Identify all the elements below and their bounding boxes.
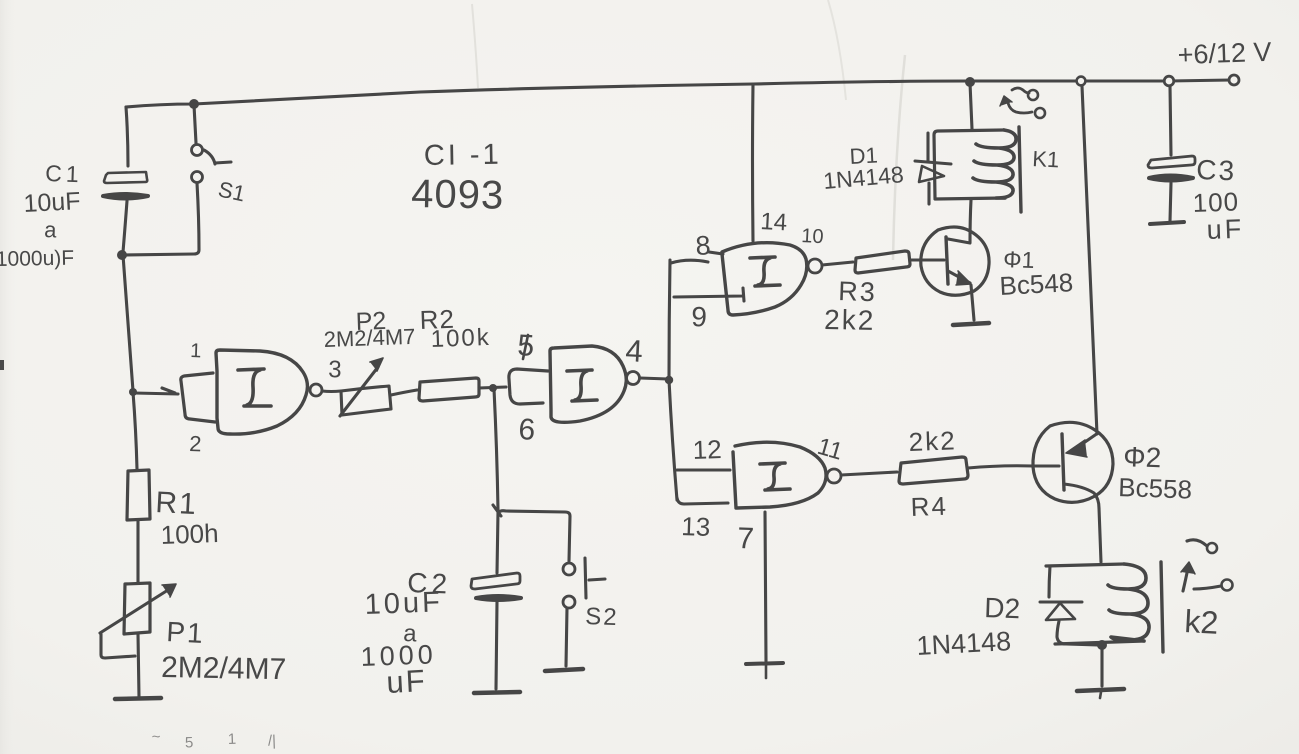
wire: P1 to ground	[138, 634, 139, 697]
svg-text:5: 5	[517, 329, 535, 363]
NAND gate U1A output bubble pin3	[310, 384, 322, 396]
C3 end bar	[1150, 222, 1184, 224]
capacitor C1 top plate	[104, 172, 147, 183]
svg-text:6: 6	[518, 413, 536, 447]
junction node pin4	[665, 376, 673, 384]
transistor Q2 collector	[1064, 484, 1099, 508]
relay K2 armature bar	[1161, 562, 1163, 652]
wire: node to pin9	[674, 288, 744, 301]
svg-text:K1: K1	[1032, 146, 1060, 172]
svg-text:4: 4	[625, 333, 644, 369]
diode D2	[1049, 566, 1050, 597]
NAND gate U1D input edge	[733, 452, 736, 508]
NAND gate U1B hysteresis mark	[567, 370, 597, 401]
junction node C1/S1	[117, 250, 127, 260]
svg-text:1N4148: 1N4148	[916, 626, 1012, 661]
junction node pin5/6 C2 branch	[489, 384, 497, 392]
relay K2 coil box	[1046, 564, 1124, 566]
wire: down to C2	[497, 512, 498, 573]
svg-text:D2: D2	[984, 592, 1021, 624]
switch S1 contact top	[192, 145, 203, 156]
wire: S1 down and left to junction	[125, 183, 199, 255]
junction node gate1 input	[129, 388, 137, 396]
wire: R4 to Q2 base	[968, 466, 1059, 468]
svg-text:13: 13	[681, 511, 711, 542]
capacitor C2 top plate	[471, 573, 520, 589]
wire: P2 to R2	[391, 390, 417, 395]
paper crease 3	[828, 0, 846, 100]
NAND gate U1D hysteresis mark	[760, 463, 790, 490]
NAND gate U1A hysteresis mark	[238, 369, 271, 406]
switch S2 contact bottom	[563, 596, 575, 608]
potentiometer P2 arrow	[340, 367, 378, 416]
diode D1	[928, 133, 929, 204]
svg-text:2M2/4M7: 2M2/4M7	[161, 651, 287, 686]
NAND gate U1A body	[216, 350, 307, 434]
wire: rail to relay K1	[970, 83, 972, 129]
capacitor C2 bottom plate	[476, 596, 521, 600]
capacitor C3 junction circle	[1164, 76, 1174, 86]
wire: long vertical from rail to Q2	[1082, 86, 1097, 434]
svg-text:5: 5	[185, 734, 194, 751]
wire: top power rail	[126, 80, 1231, 107]
relay K1 coil box	[934, 130, 1004, 198]
svg-text:~: ~	[151, 728, 161, 745]
potentiometer P1 body	[124, 583, 150, 634]
wire: K2 to ground	[1100, 646, 1103, 686]
svg-text:1: 1	[190, 340, 202, 362]
svg-text:8: 8	[695, 230, 712, 261]
transistor Q2 body circle	[1033, 422, 1113, 502]
capacitor C1 bottom plate	[103, 194, 148, 199]
wire: node down to R1	[133, 392, 137, 469]
wire: node corner to pin13	[677, 498, 728, 504]
relay K2 contact wire and arrow	[1183, 568, 1221, 591]
NAND gate U1A input stub box	[181, 373, 215, 422]
svg-text:2k2: 2k2	[824, 304, 876, 336]
transistor Q1 base bar	[946, 237, 948, 284]
wire: C1 bottom down to junction	[123, 201, 127, 252]
NAND gate U1D output bubble pin11	[827, 469, 841, 483]
svg-text:9: 9	[691, 301, 708, 333]
wire: Q2 collector down to K2	[1099, 508, 1101, 562]
NAND gate U1C output bubble pin10	[808, 259, 822, 273]
svg-text:S2: S2	[585, 603, 619, 631]
svg-text:4093: 4093	[411, 172, 505, 218]
terminal: rail end open circle	[1229, 75, 1239, 85]
transistor Q2 emitter with arrow	[1072, 433, 1098, 451]
wire: node to pin12	[677, 468, 730, 471]
potentiometer P1 wiper strap	[101, 634, 135, 658]
wire: pin10 to R3	[822, 262, 853, 265]
svg-text:100k: 100k	[430, 324, 491, 353]
svg-text:Bc548: Bc548	[999, 267, 1074, 301]
potentiometer P2 body	[341, 386, 391, 415]
wire: pin3 to P2	[322, 389, 341, 393]
junction node relay K1 top	[965, 77, 975, 87]
svg-text:a: a	[44, 217, 58, 242]
junction node K2 bottom	[1097, 640, 1107, 650]
svg-text:2M2/4M7: 2M2/4M7	[323, 324, 416, 352]
svg-text:R3: R3	[838, 276, 878, 307]
wire: C2 to ground	[496, 602, 497, 689]
svg-text:14: 14	[760, 208, 788, 236]
svg-text:Φ2: Φ2	[1123, 441, 1162, 473]
capacitor C3 bottom plate	[1149, 176, 1193, 181]
wire: pin4 to node	[640, 378, 668, 379]
wire: R3 to Q1 base	[910, 258, 944, 261]
relay K2 coil loops	[1108, 564, 1149, 641]
transistor Q1 emitter with arrow	[948, 271, 970, 283]
terminal circle on rail at vertical feed	[1077, 77, 1086, 86]
svg-text:R1: R1	[155, 486, 199, 521]
ground below K2	[1077, 689, 1124, 691]
edge mark left	[0, 360, 4, 370]
wire: branch to S2	[499, 511, 570, 561]
svg-text:Bc558: Bc558	[1118, 472, 1193, 505]
svg-text:C1: C1	[45, 160, 83, 187]
ground below pin7	[746, 663, 783, 664]
wire: node to pin8	[671, 260, 708, 263]
wire: node vertical to gates 3 and 4	[669, 260, 677, 500]
wire: C3 down	[1170, 183, 1171, 221]
svg-text:100h: 100h	[160, 518, 219, 550]
wire: pin14 from rail	[751, 84, 755, 241]
svg-text:1000u)F: 1000u)F	[0, 247, 74, 271]
NAND gate U1D body	[735, 442, 826, 508]
switch S2 lever	[585, 558, 605, 598]
wire: Q1 emitter to ground	[971, 285, 974, 320]
relay K1 armature bar	[1019, 127, 1021, 212]
NAND gate U1C body	[722, 243, 807, 315]
resistor R2 body	[419, 378, 479, 401]
switch S1 lever	[204, 150, 231, 164]
wire: rail corner down to C1	[126, 107, 128, 166]
potentiometer P1 arrow	[100, 590, 168, 633]
NAND gate U1C pin8 stub	[709, 252, 723, 254]
ground below P1	[115, 698, 161, 699]
svg-text:C3: C3	[1196, 154, 1237, 186]
wire: rail to C3	[1170, 86, 1171, 155]
resistor R1 body	[127, 470, 150, 520]
capacitor C3 top plate	[1148, 156, 1195, 168]
NAND gate U1B body	[550, 346, 626, 422]
svg-text:uF: uF	[1206, 214, 1245, 245]
ground below C2	[474, 692, 520, 693]
svg-text:7: 7	[737, 522, 755, 556]
wire: branch tick	[493, 505, 501, 516]
svg-text:k2: k2	[1184, 603, 1220, 641]
svg-text:2: 2	[189, 431, 202, 456]
transistor Q1 collector	[948, 200, 971, 243]
svg-text:uF: uF	[386, 663, 428, 700]
transistor Q2 base bar	[1062, 434, 1064, 490]
wire: S2 to ground	[566, 608, 567, 666]
paper crease 1	[893, 55, 905, 260]
paper crease 2	[472, 4, 478, 88]
svg-text:3: 3	[328, 356, 342, 383]
transistor Q1 body circle	[921, 227, 989, 295]
relay K1 coil loops	[973, 130, 1016, 198]
svg-text:R4: R4	[910, 491, 948, 522]
wire: rail down to S1	[194, 105, 196, 143]
relay K1 contact arrow	[1008, 88, 1032, 113]
NAND gate U1B output bubble pin4	[627, 372, 640, 385]
resistor R3 body	[855, 251, 910, 273]
pin5 strike mark	[523, 335, 528, 359]
svg-text:10: 10	[801, 225, 824, 248]
resistor R4 body	[899, 457, 968, 484]
ground below Q1	[953, 323, 989, 325]
NAND gate U1C hysteresis mark	[750, 257, 780, 286]
wire: node to gate1 input with arrow tick	[134, 388, 178, 394]
relay K2 contact circles	[1207, 543, 1217, 553]
relay K2 contact lever	[1187, 540, 1207, 546]
svg-text:/|: /|	[268, 732, 277, 749]
ground below S2	[545, 669, 583, 671]
bottom smudge marks	[151, 724, 276, 753]
svg-text:12: 12	[692, 434, 722, 465]
svg-text:1: 1	[228, 731, 237, 748]
wire: R1 to P1	[136, 521, 139, 582]
wire: junction down to gate1 input node	[123, 255, 133, 391]
wire: C2 branch down	[494, 389, 498, 510]
relay K1 contact circles	[1028, 90, 1038, 100]
svg-text:P1: P1	[166, 616, 206, 649]
wire: R2 to gate2 inputs	[479, 387, 506, 388]
switch S1 contact bottom	[192, 172, 203, 183]
svg-text:+6/12 V: +6/12 V	[1177, 37, 1272, 70]
svg-text:CI -1: CI -1	[424, 139, 502, 172]
wire: pin7 down	[765, 512, 766, 661]
svg-text:10uF: 10uF	[23, 187, 81, 218]
junction node S1 top	[189, 99, 199, 109]
svg-text:2k2: 2k2	[908, 425, 957, 457]
svg-text:10uF: 10uF	[364, 586, 443, 621]
wire: pin11 to R4	[841, 472, 897, 475]
switch S2 contact top	[563, 563, 575, 575]
NAND gate U1B input bracket	[509, 369, 548, 404]
